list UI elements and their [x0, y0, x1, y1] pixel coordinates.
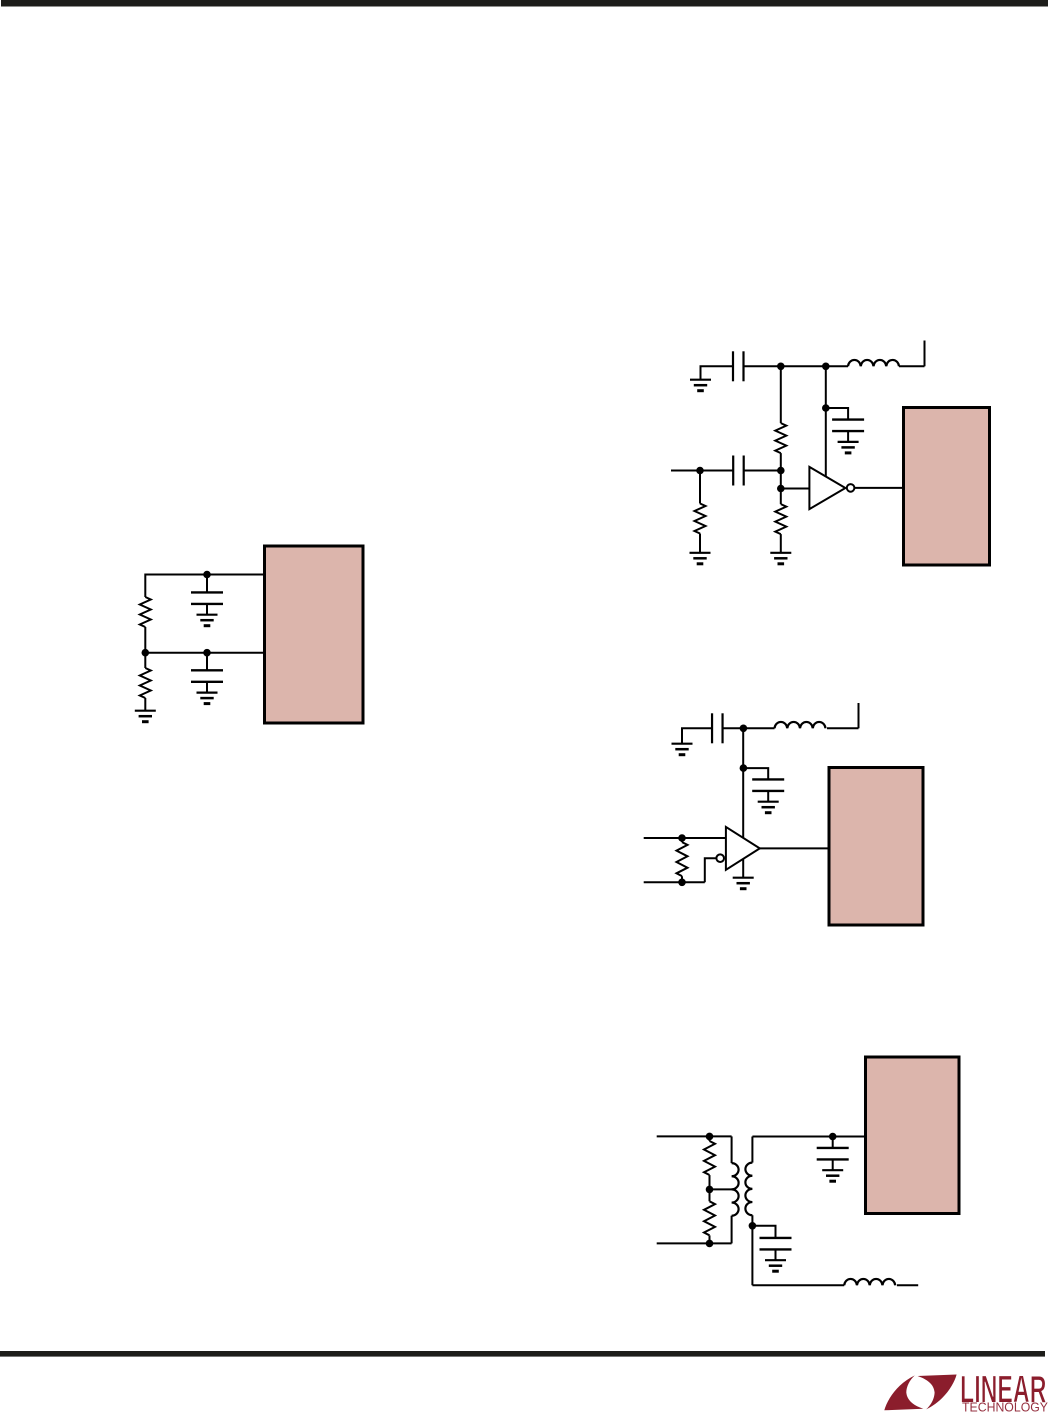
svg-text:TECHNOLOGY: TECHNOLOGY [962, 1400, 1048, 1412]
